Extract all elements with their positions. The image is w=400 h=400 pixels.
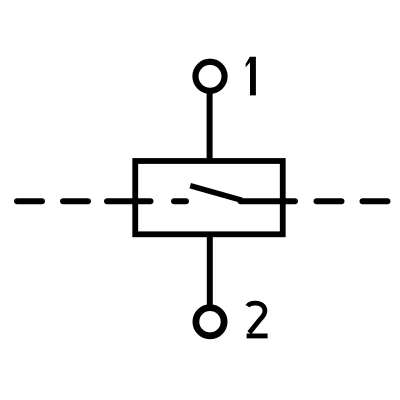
terminal circle 1 — [195, 62, 224, 91]
actuation dashed line left dash 2 — [63, 198, 88, 204]
contact line from blade elbow through right box edge — [241, 198, 296, 204]
terminal circle 2 — [196, 308, 224, 336]
wire terminal 1 to box — [207, 90, 213, 161]
label 2 — [248, 303, 265, 333]
actuation dashed line left dash 3 crossing box edge — [107, 198, 151, 204]
actuation dashed line right dash 1 — [317, 198, 342, 204]
enclosure box — [135, 161, 283, 234]
actuation dashed line left dash 1 — [17, 198, 42, 204]
actuation dashed line right dash 2 — [363, 198, 388, 204]
switch blade — [190, 186, 242, 201]
wire box to terminal 2 — [207, 234, 213, 308]
fixed contact dash inside box — [174, 198, 186, 204]
label 1 — [246, 57, 256, 96]
